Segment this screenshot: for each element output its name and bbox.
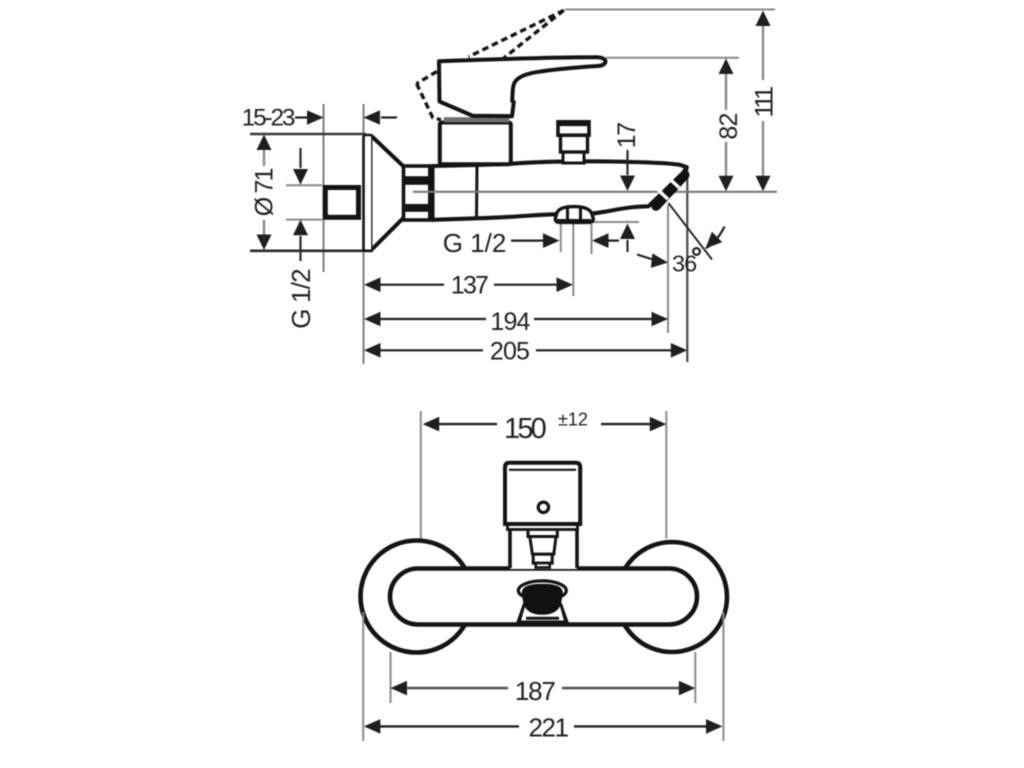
svg-text:15-23: 15-23 bbox=[242, 105, 295, 132]
svg-text:137: 137 bbox=[451, 272, 488, 300]
svg-text:82: 82 bbox=[715, 113, 743, 139]
spout body bbox=[433, 161, 687, 219]
ext line spout tip x=687.3 bbox=[686, 167, 688, 362]
dimension 205 bbox=[364, 338, 687, 366]
cartridge neck bbox=[510, 529, 577, 569]
dimension G 1/2 (wall nipple, vertical label) bbox=[286, 148, 316, 329]
knob dot bbox=[538, 502, 548, 512]
ext line aerator right x=591.5 bbox=[591, 224, 593, 254]
svg-text:111: 111 bbox=[751, 87, 779, 118]
dimension 187 bbox=[391, 676, 696, 706]
ext line top (raised handle apex) y=9.5 bbox=[565, 9, 775, 11]
svg-text:G 1/2: G 1/2 bbox=[443, 228, 507, 258]
left escutcheon circle bbox=[361, 541, 473, 653]
dimension G 1/2 (spout outlet) bbox=[443, 228, 619, 258]
svg-text:17: 17 bbox=[613, 123, 641, 148]
dimension 137 bbox=[364, 272, 573, 300]
aerator bump under spout bbox=[555, 207, 593, 223]
ext line 150 right bbox=[665, 411, 667, 539]
dimension 17 bbox=[613, 123, 641, 252]
ext line aerator bottom y=222 bbox=[592, 221, 639, 223]
handle lever bbox=[439, 57, 605, 116]
dimension 150 +-12 bbox=[423, 410, 667, 446]
wall flange plate bbox=[364, 135, 373, 251]
dimension 15-23 bbox=[242, 105, 397, 132]
ext line aerator left x=560.8 bbox=[560, 224, 562, 252]
handle knob bbox=[505, 463, 580, 524]
ext line handle top y=57.7 bbox=[606, 57, 739, 59]
svg-text:Ø 71: Ø 71 bbox=[251, 168, 279, 216]
svg-text:221: 221 bbox=[529, 713, 569, 743]
ext line wall-plane x=363.5 bbox=[363, 104, 365, 364]
dimension 82 bbox=[715, 59, 743, 192]
dimension 194 bbox=[364, 308, 668, 336]
stem steps bbox=[528, 529, 557, 537]
body capsule bbox=[390, 569, 697, 625]
ext lines 221 bbox=[362, 612, 364, 741]
spout outlet face (black crescent) bbox=[656, 175, 685, 206]
dimension Ø71 bbox=[251, 135, 279, 251]
dimension 36 degrees bbox=[637, 203, 725, 277]
ext line aerator center x=573.3 bbox=[572, 224, 574, 296]
wall nipple (square) bbox=[325, 188, 358, 218]
ext line spout outlet x=668 bbox=[667, 205, 669, 333]
ext lines 187 bbox=[390, 652, 392, 703]
check valve mid bbox=[561, 135, 588, 152]
svg-text:205: 205 bbox=[490, 338, 529, 366]
check valve neck bbox=[563, 152, 584, 164]
svg-text:150: 150 bbox=[504, 413, 546, 445]
ext line nipple-left x=323.5 bbox=[323, 104, 325, 272]
ext line nipple top bbox=[286, 184, 322, 186]
aerator face (black) bbox=[518, 581, 566, 600]
body seam bbox=[475, 166, 479, 219]
check valve cap bbox=[558, 122, 589, 135]
dimension 221 bbox=[364, 713, 723, 743]
flange cone bbox=[373, 137, 405, 249]
aerator skirt (front) bbox=[518, 605, 567, 622]
svg-text:194: 194 bbox=[490, 308, 530, 336]
ext line flange top y=134 bbox=[250, 133, 366, 135]
svg-text:G 1/2: G 1/2 bbox=[286, 269, 316, 329]
escutcheon ring under handle (gray band) bbox=[444, 117, 510, 122]
ext line flange bottom y=250.8 bbox=[250, 250, 373, 253]
svg-text:187: 187 bbox=[515, 676, 556, 706]
handle raised position (dashed) bbox=[417, 10, 564, 120]
handle knob band bbox=[508, 524, 578, 530]
valve block (handle housing) bbox=[440, 123, 511, 165]
axis line bbox=[413, 191, 777, 193]
dimension 111 bbox=[751, 11, 779, 192]
svg-text:±12: ±12 bbox=[558, 410, 588, 430]
ext line 150 left bbox=[420, 411, 422, 539]
ext line nipple bottom bbox=[286, 219, 322, 221]
right escutcheon circle bbox=[617, 542, 727, 652]
union nut bbox=[404, 166, 433, 220]
